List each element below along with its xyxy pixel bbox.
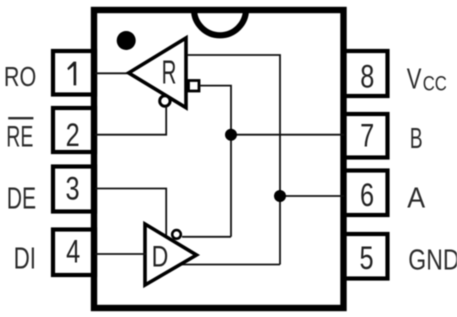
notch (pin-1 end indicator semicircle) [194, 9, 246, 35]
svg-text:DI: DI [14, 241, 36, 275]
driver U1b triangle D [145, 224, 197, 285]
svg-text:CC: CC [423, 73, 447, 96]
junction node A (net A) [274, 190, 286, 202]
receiver inverting input square bubble [189, 81, 200, 92]
wire net B to pin 7 [231, 134, 344, 136]
svg-text:B: B [410, 123, 423, 155]
pin 2 box [53, 108, 95, 152]
svg-text:2: 2 [66, 118, 80, 154]
svg-text:6: 6 [360, 178, 374, 214]
wire pin1 to receiver output [95, 72, 131, 74]
svg-text:5: 5 [360, 241, 374, 277]
pin 1 box [53, 51, 95, 95]
svg-text:D: D [152, 240, 169, 274]
receiver enable bubble [160, 96, 170, 106]
wire driver inverted output to net B vertical [182, 236, 231, 238]
svg-text:A: A [407, 181, 425, 213]
svg-text:7: 7 [360, 119, 374, 155]
pin 3 box [53, 167, 95, 212]
wire net A to pin 6 [280, 195, 344, 197]
pin-1 indicator dot [117, 31, 136, 50]
receiver U1a triangle R [129, 38, 186, 108]
svg-text:8: 8 [360, 60, 374, 96]
pin 8 box [344, 51, 388, 96]
svg-text:3: 3 [65, 172, 79, 208]
IC body U1 (8-pin DIP outline) [94, 10, 344, 308]
pin 5 box [344, 234, 388, 279]
svg-text:4: 4 [66, 235, 80, 271]
wire pin3 DE to driver enable [95, 189, 166, 238]
svg-text:RO: RO [4, 62, 36, 92]
wire pin2 RE to receiver enable bubble [95, 107, 166, 135]
svg-text:V: V [407, 64, 422, 96]
svg-text:DE: DE [7, 180, 36, 215]
pin 6 box [344, 171, 388, 216]
wire driver output to net A vertical [179, 264, 280, 266]
pin 4 box [53, 230, 95, 276]
driver inverted output bubble [172, 230, 181, 239]
RE overline bar [8, 117, 33, 119]
svg-text:RE: RE [6, 121, 33, 154]
wire receiver noninverting input to net A vertical [187, 55, 280, 265]
pin 1 number [67, 62, 76, 86]
pin 7 box [344, 114, 388, 158]
wire pin4 DI to driver input [95, 253, 146, 255]
wire receiver inverting input to net B vertical [200, 86, 232, 237]
junction node B (net B) [225, 129, 237, 141]
svg-text:R: R [162, 54, 177, 91]
svg-text:GND: GND [408, 243, 457, 276]
